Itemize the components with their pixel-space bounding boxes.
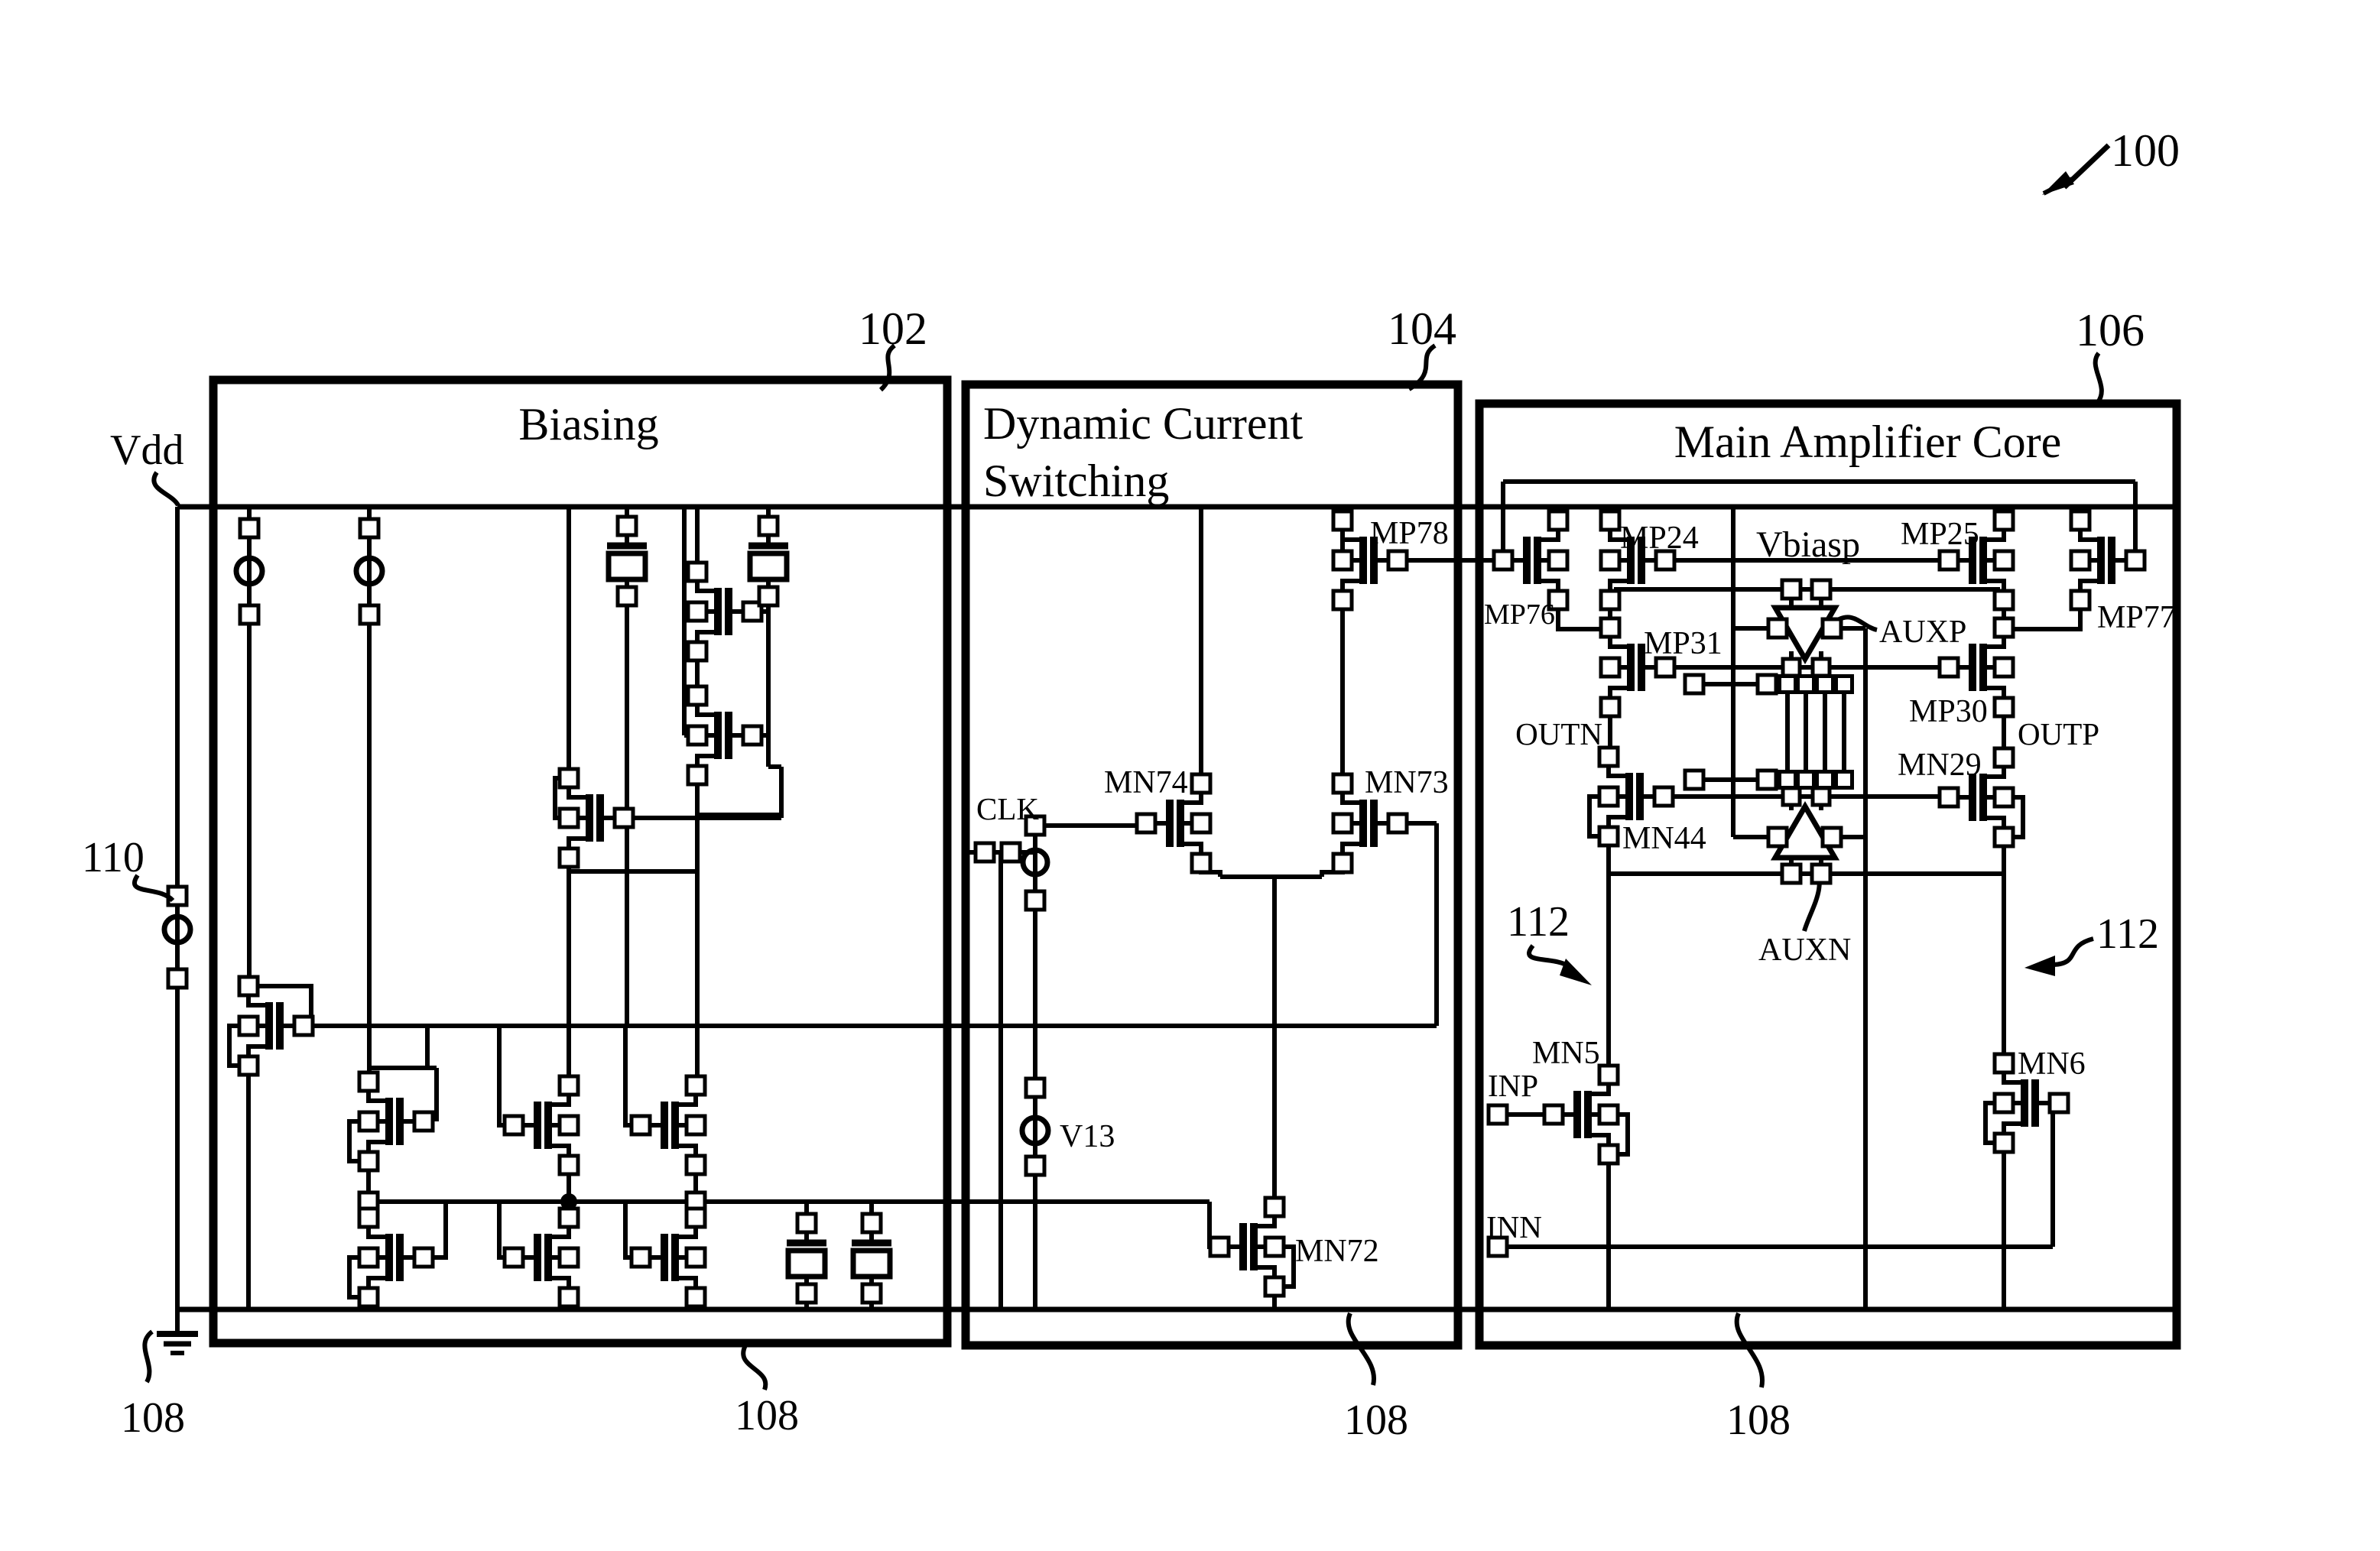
svg-text:MN74: MN74 bbox=[1104, 765, 1188, 800]
svg-text:108: 108 bbox=[1726, 1397, 1791, 1444]
svg-text:OUTP: OUTP bbox=[2018, 716, 2099, 751]
svg-text:MN72: MN72 bbox=[1295, 1234, 1379, 1269]
svg-text:V13: V13 bbox=[1060, 1119, 1115, 1154]
svg-text:108: 108 bbox=[121, 1394, 185, 1442]
svg-text:100: 100 bbox=[2111, 125, 2180, 176]
svg-text:MN29: MN29 bbox=[1898, 748, 1982, 783]
svg-text:Vdd: Vdd bbox=[110, 427, 183, 474]
svg-text:MP30: MP30 bbox=[1909, 694, 1988, 729]
svg-text:MP31: MP31 bbox=[1644, 626, 1722, 661]
svg-text:INP: INP bbox=[1488, 1068, 1538, 1103]
svg-text:MN6: MN6 bbox=[2018, 1046, 2086, 1082]
svg-text:AUXN: AUXN bbox=[1758, 933, 1851, 968]
svg-text:Vbiasp: Vbiasp bbox=[1756, 524, 1860, 565]
svg-text:112: 112 bbox=[1507, 898, 1570, 946]
svg-text:MP24: MP24 bbox=[1620, 521, 1699, 556]
svg-text:108: 108 bbox=[735, 1392, 799, 1439]
svg-text:Biasing: Biasing bbox=[518, 399, 658, 449]
svg-text:Switching: Switching bbox=[983, 456, 1169, 506]
svg-text:OUTN: OUTN bbox=[1515, 716, 1602, 751]
svg-text:MP25: MP25 bbox=[1901, 517, 1979, 552]
svg-text:MP78: MP78 bbox=[1370, 516, 1449, 551]
svg-text:104: 104 bbox=[1388, 303, 1456, 354]
svg-text:CLK: CLK bbox=[976, 791, 1039, 826]
svg-text:MN5: MN5 bbox=[1532, 1036, 1600, 1071]
svg-text:MP76: MP76 bbox=[1484, 599, 1555, 631]
svg-text:108: 108 bbox=[1344, 1397, 1408, 1444]
svg-text:MP77: MP77 bbox=[2097, 600, 2176, 635]
svg-text:106: 106 bbox=[2076, 305, 2145, 355]
svg-text:Main Amplifier Core: Main Amplifier Core bbox=[1674, 417, 2062, 467]
svg-text:Dynamic Current: Dynamic Current bbox=[983, 398, 1304, 449]
svg-text:AUXP: AUXP bbox=[1879, 615, 1966, 650]
svg-text:MN44: MN44 bbox=[1622, 821, 1706, 856]
svg-text:110: 110 bbox=[82, 834, 144, 881]
svg-text:112: 112 bbox=[2096, 910, 2159, 958]
svg-text:MN73: MN73 bbox=[1365, 765, 1449, 800]
svg-text:INN: INN bbox=[1486, 1209, 1542, 1244]
